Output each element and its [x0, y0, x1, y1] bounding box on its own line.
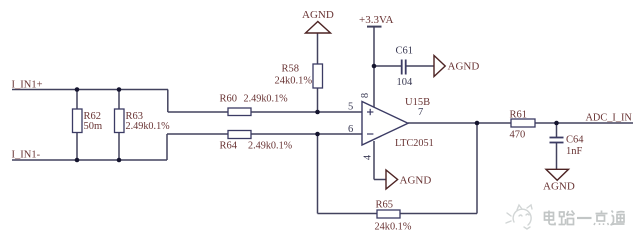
wire C61 left: [374, 65, 401, 67]
resistor R64: [228, 131, 251, 139]
svg-text:AGND: AGND: [448, 61, 480, 73]
resistor R65: [377, 210, 400, 218]
svg-text:I_IN1-: I_IN1-: [12, 150, 41, 161]
wire C64 bottom to AGND: [556, 143, 558, 169]
node dot feedback output: [475, 121, 480, 126]
svg-text:AGND: AGND: [543, 180, 575, 192]
ground AGND below C64: [546, 169, 569, 180]
resistor R61: [511, 119, 535, 127]
wire I_IN1+ horizontal: [12, 89, 168, 91]
svg-text:AGND: AGND: [400, 175, 432, 187]
char 点: [594, 211, 609, 226]
svg-text:24k0.1%: 24k0.1%: [375, 222, 412, 233]
wire output pin 7: [408, 122, 633, 124]
svg-text:5: 5: [348, 102, 353, 113]
wire I_IN1- horizontal: [12, 159, 167, 161]
wire +3.3VA vertical to pin 8: [373, 27, 375, 108]
capacitor C64 plates: [550, 138, 564, 143]
power bar +3.3VA: [367, 26, 382, 28]
svg-text:I_IN1+: I_IN1+: [12, 80, 43, 91]
node dot I_IN1+ R63: [117, 87, 122, 92]
wire to pin 6 through R64: [167, 133, 362, 135]
char 一: [577, 217, 592, 219]
resistor R60: [228, 108, 251, 116]
wire R58 vertical from AGND to pin5 row: [317, 33, 319, 112]
ground AGND top (above R58): [306, 22, 331, 34]
svg-text:2.49k0.1%: 2.49k0.1%: [126, 121, 171, 132]
svg-text:R61: R61: [510, 110, 528, 121]
svg-text:R64: R64: [220, 141, 238, 152]
svg-text:R65: R65: [376, 200, 394, 211]
wire C61 right to AGND: [407, 65, 435, 67]
op-amp plus input symbol: [367, 109, 373, 115]
wire I_IN1+ corner down: [167, 90, 169, 113]
op-amp U15B triangle: [362, 102, 408, 146]
svg-text:470: 470: [510, 130, 526, 141]
node dot R58 pin5 row: [315, 110, 320, 115]
svg-text:C61: C61: [396, 46, 414, 57]
svg-text:2.49k0.1%: 2.49k0.1%: [248, 141, 293, 152]
resistor R58: [313, 64, 323, 88]
wire feedback vertical left to pin6 row: [317, 134, 319, 214]
wire R62 vertical: [76, 90, 78, 161]
resistor R63: [115, 109, 125, 133]
char 电: [545, 211, 556, 225]
ground AGND right of C61: [434, 56, 445, 77]
svg-text:4: 4: [363, 154, 374, 160]
svg-text:7: 7: [418, 107, 423, 118]
svg-text:R60: R60: [220, 94, 238, 105]
node dot C61 tap: [372, 64, 377, 69]
svg-text:50m: 50m: [84, 121, 103, 132]
svg-text:C64: C64: [566, 135, 584, 146]
ground AGND below pin 4: [386, 170, 398, 189]
wire pin 4 down: [373, 141, 375, 180]
svg-text:6: 6: [348, 124, 353, 135]
svg-text:104: 104: [397, 77, 414, 88]
resistor R62: [73, 109, 83, 133]
wire feedback bottom through R65: [318, 213, 478, 215]
op-amp minus input symbol: [367, 133, 373, 135]
char 通: [611, 211, 625, 226]
svg-text:1nF: 1nF: [566, 146, 583, 157]
svg-text:R58: R58: [282, 64, 300, 75]
wire to pin 5 through R60: [168, 111, 362, 113]
wire feedback vertical right: [476, 123, 478, 214]
svg-text:+3.3VA: +3.3VA: [359, 14, 393, 26]
svg-text:LTC2051: LTC2051: [395, 138, 434, 149]
wire I_IN1- corner up: [166, 134, 168, 160]
node dot C64 tap: [554, 121, 559, 126]
watermark text 电路一点通 (drawn strokes): [545, 211, 625, 226]
svg-text:24k0.1%: 24k0.1%: [275, 76, 313, 87]
svg-text:AGND: AGND: [302, 9, 334, 21]
watermark logo: [506, 205, 532, 229]
capacitor C61 plates: [402, 60, 406, 75]
svg-text:8: 8: [360, 93, 371, 98]
svg-text:2.49k0.1%: 2.49k0.1%: [244, 94, 289, 105]
char 路: [559, 211, 575, 225]
node dot I_IN1- R63: [117, 158, 122, 163]
wire R63 vertical: [118, 90, 120, 161]
node dot I_IN1- R62: [75, 158, 80, 163]
node dot I_IN1+ R62: [75, 87, 80, 92]
node dot feedback pin6 row: [315, 132, 320, 137]
svg-text:ADC_I_IN: ADC_I_IN: [586, 113, 633, 124]
wire pin 4 to AGND: [374, 179, 386, 181]
wire C64 top: [556, 123, 558, 137]
